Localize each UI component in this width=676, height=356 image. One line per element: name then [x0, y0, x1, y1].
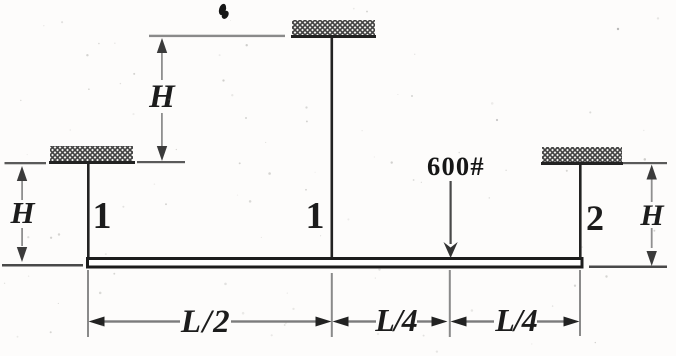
- svg-text:2: 2: [586, 198, 604, 238]
- svg-text:H: H: [639, 199, 665, 232]
- svg-text:L/4: L/4: [494, 302, 537, 338]
- svg-text:H: H: [9, 195, 35, 230]
- svg-text:L/2: L/2: [180, 304, 231, 340]
- svg-text:600#: 600#: [427, 151, 485, 181]
- svg-text:1: 1: [306, 195, 325, 237]
- svg-text:L/4: L/4: [374, 302, 417, 338]
- svg-text:1: 1: [93, 195, 112, 237]
- svg-text:H: H: [148, 79, 176, 115]
